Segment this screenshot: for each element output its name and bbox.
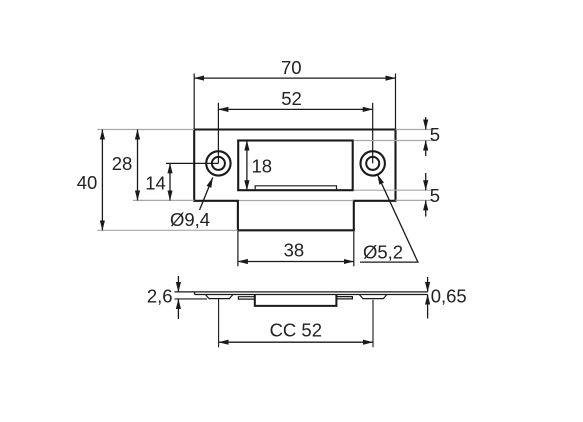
label diameter 9,4 with leader bbox=[170, 178, 213, 230]
dimension 5 lower right bbox=[239, 173, 440, 217]
svg-text:38: 38 bbox=[284, 240, 305, 261]
dimension 40 bbox=[77, 130, 238, 231]
svg-text:52: 52 bbox=[281, 88, 302, 109]
dimension 52 bbox=[218, 88, 372, 110]
latch opening rectangle bbox=[238, 141, 353, 191]
lip inside opening bbox=[255, 186, 336, 189]
label diameter 5,2 with leader bbox=[360, 175, 418, 263]
centerline hole right bbox=[372, 103, 374, 164]
svg-text:70: 70 bbox=[281, 57, 302, 78]
svg-text:Ø5,2: Ø5,2 bbox=[363, 242, 403, 263]
dimension CC 52 bbox=[219, 299, 373, 348]
dimension 70 bbox=[194, 57, 395, 129]
svg-text:14: 14 bbox=[145, 173, 166, 194]
svg-text:40: 40 bbox=[77, 172, 98, 193]
side view left countersink dimple bbox=[205, 295, 233, 299]
side view right countersink dimple bbox=[359, 295, 387, 299]
dimension 18 bbox=[247, 141, 272, 191]
screw hole right bbox=[361, 151, 385, 175]
dimension 28 bbox=[112, 130, 194, 201]
dimension 5 upper right bbox=[354, 117, 440, 156]
dimension 2,6 bbox=[147, 276, 207, 319]
centerline hole left bbox=[166, 103, 218, 164]
dimension 38 bbox=[238, 231, 354, 266]
svg-text:0,65: 0,65 bbox=[431, 285, 467, 306]
dimension 14 bbox=[145, 163, 170, 200]
side view left step bbox=[238, 297, 254, 299]
svg-text:5: 5 bbox=[430, 185, 440, 206]
screw hole left bbox=[206, 151, 230, 175]
dimension 0,65 bbox=[428, 277, 467, 319]
svg-text:5: 5 bbox=[430, 124, 440, 145]
side view latch box bbox=[255, 295, 337, 306]
side view right step bbox=[336, 297, 352, 299]
svg-text:28: 28 bbox=[112, 153, 133, 174]
svg-text:18: 18 bbox=[252, 155, 273, 176]
side view sheet top line bbox=[175, 291, 428, 293]
svg-text:Ø9,4: Ø9,4 bbox=[170, 209, 210, 230]
svg-text:CC 52: CC 52 bbox=[270, 320, 322, 341]
side view sheet bottom line bbox=[195, 292, 428, 295]
svg-text:2,6: 2,6 bbox=[147, 286, 173, 307]
plate outline (top view) bbox=[194, 130, 395, 231]
